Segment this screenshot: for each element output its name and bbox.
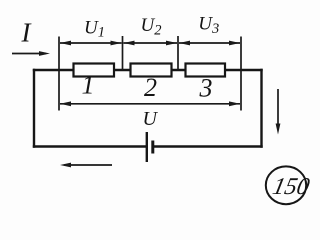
arrowhead U3 right	[229, 41, 240, 46]
U3 dimension line	[179, 42, 240, 44]
arrowhead U1 right	[111, 41, 122, 46]
U1 dimension line	[60, 42, 122, 44]
U2 dimension line	[124, 42, 178, 44]
problem number circle	[266, 166, 306, 204]
wire top left segment	[34, 69, 73, 71]
wire between resistor 2 and 3	[171, 69, 186, 71]
current arrow I line	[12, 53, 46, 55]
arrowhead right side down	[276, 124, 281, 135]
wire bottom left to battery	[34, 145, 146, 147]
arrowhead U total right	[229, 101, 240, 106]
dimension tick x=59	[58, 37, 60, 111]
bottom left current direction line	[64, 164, 112, 166]
resistor 2	[131, 64, 172, 77]
arrowhead U1 left	[60, 41, 71, 46]
svg-text:3: 3	[199, 74, 213, 103]
wire left vertical	[33, 70, 35, 147]
wire right vertical	[260, 70, 262, 147]
wire top right segment	[224, 69, 262, 71]
arrowhead U total left	[60, 101, 71, 106]
dimension tick x=178	[177, 36, 179, 70]
arrowhead U3 left	[179, 41, 190, 46]
wire bottom battery to right	[153, 145, 262, 147]
wire between resistor 1 and 2	[114, 69, 131, 71]
arrowhead current I	[39, 51, 50, 56]
battery short plate	[151, 141, 154, 154]
arrowhead bottom left	[60, 163, 71, 168]
dimension tick x=241	[240, 37, 242, 111]
arrowhead U2 left	[124, 41, 135, 46]
svg-text:150: 150	[270, 173, 312, 200]
right side current direction line	[277, 89, 279, 129]
resistor 1	[74, 64, 115, 77]
svg-text:2: 2	[144, 73, 157, 102]
svg-text:1: 1	[82, 71, 95, 100]
svg-text:U: U	[143, 108, 159, 130]
resistor 3	[186, 64, 226, 77]
dimension tick x=122.5	[122, 36, 124, 70]
battery long plate	[146, 132, 148, 162]
arrowhead U2 right	[166, 41, 177, 46]
U total dimension line	[60, 103, 240, 105]
